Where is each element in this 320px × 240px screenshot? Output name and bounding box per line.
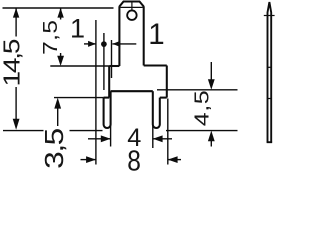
svg-text:14,5: 14,5 — [0, 39, 25, 87]
svg-text:1: 1 — [148, 18, 164, 51]
svg-text:1: 1 — [70, 14, 85, 44]
svg-text:7,5: 7,5 — [39, 20, 61, 55]
svg-text:3,5: 3,5 — [41, 129, 70, 169]
svg-text:8: 8 — [127, 145, 141, 174]
svg-text:4,5: 4,5 — [190, 90, 213, 127]
